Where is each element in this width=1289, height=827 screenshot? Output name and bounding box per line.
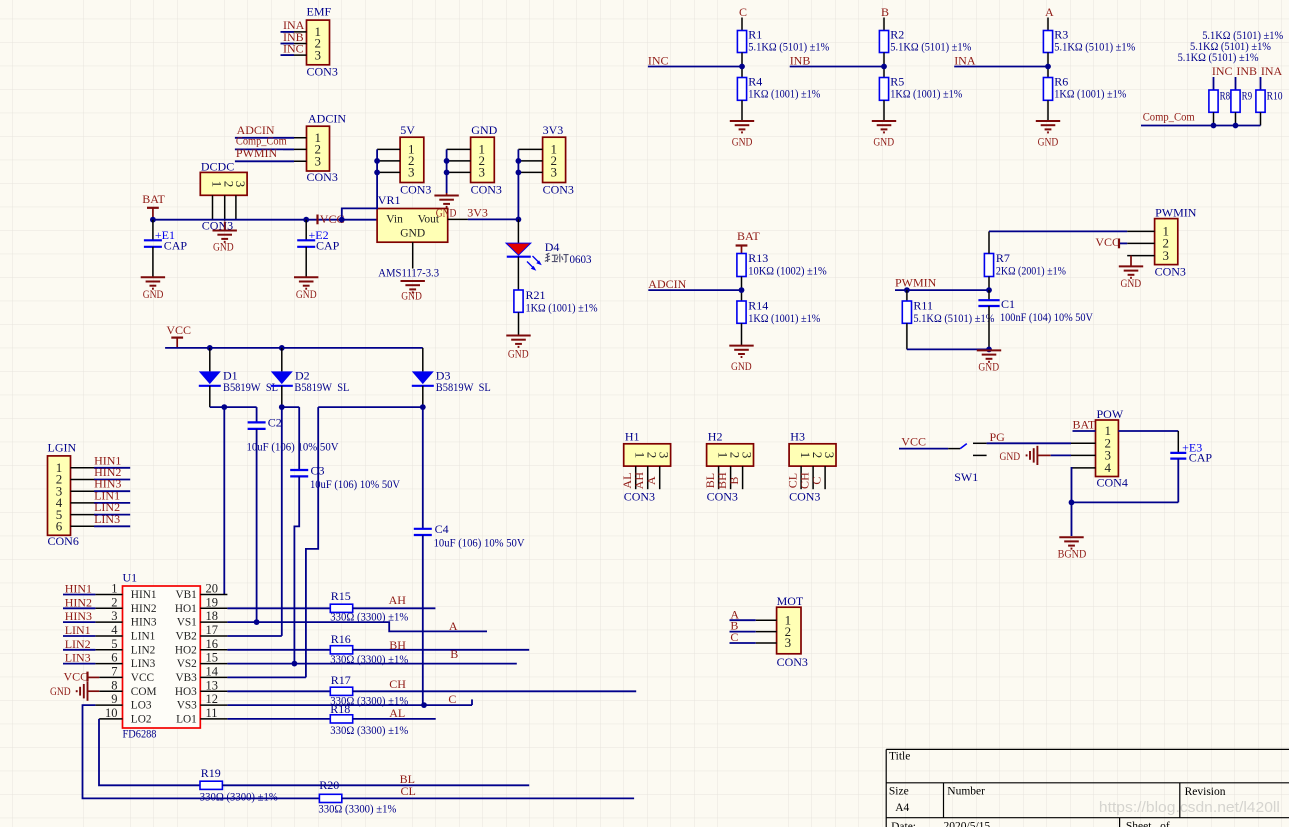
ground at R21 — [506, 336, 530, 361]
svg-text:CAP: CAP — [164, 239, 188, 253]
svg-text:CAP: CAP — [1189, 451, 1213, 465]
net label B — [881, 5, 889, 31]
svg-text:AL: AL — [389, 706, 405, 720]
power ground at U1 pin8 — [50, 682, 99, 701]
svg-text:GND: GND — [50, 684, 71, 698]
svg-text:11: 11 — [206, 706, 218, 720]
svg-text:10uF (106) 10% 50V: 10uF (106) 10% 50V — [310, 477, 400, 491]
svg-text:H3: H3 — [790, 430, 805, 444]
switch SW1 — [899, 434, 987, 484]
resistor R5 — [879, 75, 962, 121]
svg-text:GND: GND — [1038, 135, 1059, 149]
svg-text:5.1KΩ (5101) ±1%: 5.1KΩ (5101) ±1% — [1054, 40, 1135, 54]
net label INA wire — [954, 54, 1051, 70]
wire VB3 rail segment — [306, 404, 426, 677]
svg-text:15: 15 — [206, 651, 219, 665]
svg-text:0603: 0603 — [570, 252, 592, 266]
ground at C1 — [977, 350, 1001, 373]
svg-text:LO1: LO1 — [176, 714, 197, 726]
svg-text:R20: R20 — [319, 778, 339, 792]
svg-text:VCC: VCC — [131, 672, 154, 684]
svg-text:GND: GND — [1000, 449, 1021, 463]
ground at PWMIN pin3 — [1119, 256, 1143, 290]
svg-text:C: C — [730, 630, 738, 644]
svg-text:Vin: Vin — [386, 213, 403, 225]
svg-text:R17: R17 — [331, 673, 351, 687]
svg-text:3: 3 — [822, 452, 837, 459]
svg-text:HIN2: HIN2 — [131, 603, 157, 615]
svg-text:A: A — [644, 476, 658, 485]
svg-text:LIN2: LIN2 — [131, 644, 156, 656]
wire POW pin1 to E3 — [1118, 431, 1178, 453]
wire VB1 rail segment — [210, 404, 257, 594]
svg-text:3: 3 — [111, 609, 117, 623]
svg-text:LIN1: LIN1 — [131, 631, 155, 643]
net label C — [739, 5, 747, 31]
ground at R6 — [1036, 121, 1060, 149]
ground at R14 — [729, 346, 753, 373]
svg-text:CL: CL — [401, 784, 416, 798]
svg-text:CON3: CON3 — [400, 183, 431, 197]
svg-text:R9: R9 — [1242, 90, 1253, 102]
net label CL wire — [342, 784, 634, 798]
svg-text:18: 18 — [206, 609, 219, 623]
svg-text:GND: GND — [401, 289, 422, 303]
svg-text:GND: GND — [436, 205, 457, 219]
svg-text:LIN2: LIN2 — [65, 637, 91, 651]
svg-text:B: B — [881, 5, 889, 19]
svg-text:VB3: VB3 — [175, 672, 197, 684]
connector ADCIN (CON3) — [283, 112, 346, 184]
svg-text:17: 17 — [206, 623, 219, 637]
svg-text:B5819W SL: B5819W SL — [436, 380, 491, 394]
resistor R9 — [1231, 90, 1252, 126]
svg-text:https://blog.csdn.net/l420ll: https://blog.csdn.net/l420ll — [1099, 799, 1280, 816]
svg-text:GND: GND — [873, 135, 894, 149]
svg-text:MOT: MOT — [777, 594, 804, 608]
connector GND (CON3) — [447, 123, 502, 197]
svg-text:HIN3: HIN3 — [131, 617, 157, 629]
ground at DCDC pin2 — [213, 222, 237, 254]
ground at R4 — [730, 121, 754, 149]
svg-text:PWMIN: PWMIN — [236, 146, 278, 160]
svg-text:BAT: BAT — [142, 192, 165, 206]
svg-text:330Ω (3300) ±1%: 330Ω (3300) ±1% — [200, 790, 278, 804]
net label BL wire — [222, 772, 529, 786]
svg-text:BH: BH — [389, 638, 406, 652]
resistor R3 — [1043, 28, 1135, 78]
svg-text:CON3: CON3 — [307, 170, 338, 184]
svg-text:10uF (106) 10% 50V: 10uF (106) 10% 50V — [434, 535, 525, 549]
svg-text:CON6: CON6 — [48, 534, 79, 548]
wire 3V3 connector to 3V3 node — [516, 149, 522, 222]
svg-text:3: 3 — [551, 165, 558, 180]
power port BAT mid — [736, 229, 761, 254]
svg-text:EMF: EMF — [307, 5, 332, 19]
svg-text:B: B — [727, 477, 741, 485]
svg-text:10KΩ (1002) ±1%: 10KΩ (1002) ±1% — [748, 264, 826, 278]
connector 5V (CON3) — [377, 123, 431, 197]
svg-text:INB: INB — [790, 54, 811, 68]
svg-text:CON3: CON3 — [777, 655, 808, 669]
svg-text:VCC: VCC — [320, 212, 345, 226]
svg-text:3: 3 — [785, 635, 792, 650]
svg-text:GND: GND — [143, 287, 164, 301]
svg-text:1KΩ (1001) ±1%: 1KΩ (1001) ±1% — [890, 87, 962, 101]
svg-text:VCC: VCC — [166, 323, 191, 337]
svg-text:CON3: CON3 — [789, 490, 820, 504]
svg-text:PWMIN: PWMIN — [1155, 206, 1197, 220]
svg-text:B5819W SL: B5819W SL — [294, 380, 349, 394]
net label INC wire — [648, 54, 745, 70]
wire LO1 to R18 — [227, 718, 330, 720]
svg-text:16: 16 — [206, 637, 219, 651]
svg-text:VB2: VB2 — [175, 631, 197, 643]
connector 3V3 (CON3) — [518, 123, 574, 197]
net label PWMIN wire — [895, 276, 992, 293]
ground at GND connector — [434, 196, 458, 220]
power port VCC at PWMIN — [1095, 235, 1127, 249]
svg-text:GND: GND — [732, 135, 753, 149]
connector H2 (CON3) — [707, 430, 755, 504]
svg-text:AH: AH — [389, 593, 407, 607]
capacitor C3 — [290, 407, 400, 663]
svg-text:4: 4 — [111, 623, 118, 637]
resistor R20 — [318, 778, 396, 816]
svg-text:R8: R8 — [1220, 90, 1231, 102]
op-amp U1 FD6288 — [95, 571, 227, 741]
ground at R5 — [872, 121, 896, 149]
svg-text:DCDC: DCDC — [201, 160, 234, 174]
resistor R6 — [1043, 75, 1126, 121]
svg-text:VS3: VS3 — [177, 700, 197, 712]
svg-text:D4: D4 — [545, 240, 560, 254]
svg-text:1KΩ (1001) ±1%: 1KΩ (1001) ±1% — [748, 311, 820, 325]
svg-text:12: 12 — [206, 692, 219, 706]
svg-text:ADCIN: ADCIN — [648, 277, 686, 291]
svg-text:HO2: HO2 — [175, 644, 197, 656]
svg-text:LIN3: LIN3 — [65, 651, 91, 665]
svg-text:1KΩ (1001) ±1%: 1KΩ (1001) ±1% — [526, 301, 598, 315]
net label B wire VS2 — [227, 647, 516, 666]
resistor R17 — [330, 673, 408, 707]
svg-text:5.1KΩ (5101) ±1%: 5.1KΩ (5101) ±1% — [913, 311, 994, 325]
svg-text:8: 8 — [111, 678, 117, 692]
svg-text:2020/5/15: 2020/5/15 — [944, 821, 991, 827]
svg-text:B: B — [450, 647, 458, 661]
power port VCC top — [166, 323, 191, 348]
svg-text:PWMIN: PWMIN — [895, 276, 937, 290]
resistor R16 — [330, 632, 408, 666]
svg-text:10uF (106) 10% 50V: 10uF (106) 10% 50V — [247, 440, 339, 454]
svg-text:GND: GND — [213, 240, 234, 254]
svg-text:VR1: VR1 — [378, 193, 401, 207]
resistor R2 — [879, 28, 971, 78]
svg-text:3: 3 — [315, 47, 322, 62]
svg-text:LO2: LO2 — [131, 714, 152, 726]
resistor R1 — [737, 28, 829, 78]
svg-text:C2: C2 — [268, 416, 282, 430]
net labels BL BH B at H2 — [703, 472, 741, 489]
svg-text:A4: A4 — [895, 802, 909, 814]
wire VCC rail — [165, 345, 423, 351]
svg-text:5.1KΩ (5101) ±1%: 5.1KΩ (5101) ±1% — [1178, 50, 1259, 64]
resistor R15 — [330, 589, 408, 623]
svg-text:BAT: BAT — [737, 229, 760, 243]
svg-text:VCC: VCC — [1095, 235, 1120, 249]
net labels CL CH C at H3 — [785, 472, 823, 489]
svg-text:VS2: VS2 — [177, 658, 197, 670]
svg-text:GND: GND — [731, 359, 752, 373]
capacitor C2 — [247, 407, 339, 622]
svg-text:H1: H1 — [625, 430, 640, 444]
svg-text:10: 10 — [105, 706, 118, 720]
svg-text:3: 3 — [315, 154, 322, 169]
net label BAT wire at POW — [1073, 417, 1096, 431]
svg-text:ADCIN: ADCIN — [308, 112, 346, 126]
connector PWMIN (CON3) — [1127, 206, 1197, 279]
wire LO2 to R19 — [99, 719, 200, 785]
net label INB wire — [790, 54, 887, 70]
resistor R18 — [330, 702, 408, 737]
net labels INC INB INA wires at pullups — [1212, 64, 1283, 90]
svg-text:BGND: BGND — [1058, 547, 1087, 561]
diode D1 B5819W — [199, 348, 278, 407]
svg-text:VCC: VCC — [64, 669, 89, 683]
svg-text:INC: INC — [648, 54, 669, 68]
svg-text:20: 20 — [206, 582, 219, 596]
svg-text:R15: R15 — [331, 589, 351, 603]
svg-text:VCC: VCC — [901, 434, 926, 448]
wire POW pin4 to BGND — [1069, 468, 1179, 536]
svg-text:HIN1: HIN1 — [131, 589, 157, 601]
svg-text:AMS1117-3.3: AMS1117-3.3 — [378, 266, 439, 280]
svg-text:14: 14 — [206, 664, 219, 678]
LED D4 red 0603 — [506, 219, 592, 290]
resistor R8 — [1209, 90, 1230, 126]
watermark — [1099, 799, 1280, 816]
resistor R11 — [902, 290, 994, 349]
svg-text:6: 6 — [111, 651, 117, 665]
svg-text:C: C — [448, 692, 456, 706]
net labels HIN LIN at U1 — [63, 582, 95, 665]
svg-text:R19: R19 — [201, 766, 221, 780]
svg-text:3: 3 — [657, 452, 672, 459]
svg-text:COM: COM — [131, 686, 157, 698]
svg-text:GND: GND — [296, 287, 317, 301]
power port VCC at U1 pin7 — [64, 669, 100, 683]
svg-text:BAT: BAT — [1073, 417, 1096, 431]
svg-text:7: 7 — [111, 664, 117, 678]
svg-text:3: 3 — [479, 165, 486, 180]
svg-text:INB: INB — [1236, 64, 1257, 78]
connector EMF (CON3) — [283, 5, 338, 79]
svg-text:INA: INA — [954, 54, 976, 68]
svg-text:LIN3: LIN3 — [131, 658, 156, 670]
svg-text:LIN1: LIN1 — [65, 623, 91, 637]
svg-text:4: 4 — [1105, 460, 1112, 475]
svg-text:5V: 5V — [400, 123, 415, 137]
svg-text:U1: U1 — [123, 571, 138, 585]
svg-text:A: A — [1045, 5, 1054, 19]
svg-text:5.1KΩ (5101) ±1%: 5.1KΩ (5101) ±1% — [748, 40, 829, 54]
svg-text:R10: R10 — [1267, 90, 1283, 102]
wire R7 to PWMIN pin1 — [989, 230, 1127, 232]
svg-text:CAP: CAP — [316, 239, 340, 253]
resistor R10 — [1256, 90, 1283, 126]
svg-text:A: A — [449, 619, 458, 633]
connector DCDC (CON3) — [200, 160, 248, 233]
value labels for R8 R9 R10 — [1178, 28, 1284, 64]
svg-text:5.1KΩ (5101) ±1%: 5.1KΩ (5101) ±1% — [890, 40, 971, 54]
connector H1 (CON3) — [624, 430, 672, 504]
ground BGND — [1058, 537, 1087, 560]
connector H3 (CON3) — [789, 430, 837, 504]
wire R11 C1 to ground — [907, 347, 992, 353]
net label CH wire — [353, 677, 637, 692]
svg-text:CON3: CON3 — [624, 490, 655, 504]
svg-text:LGIN: LGIN — [48, 440, 77, 454]
svg-text:13: 13 — [206, 678, 219, 692]
svg-text:3V3: 3V3 — [467, 205, 488, 219]
svg-text:1KΩ (1001) ±1%: 1KΩ (1001) ±1% — [748, 87, 820, 101]
power port BAT — [142, 192, 165, 220]
svg-text:GND: GND — [1121, 276, 1142, 290]
svg-text:C: C — [739, 5, 747, 19]
svg-text:19: 19 — [206, 595, 219, 609]
net label AH wire — [353, 593, 436, 608]
svg-text:2KΩ (2001) ±1%: 2KΩ (2001) ±1% — [996, 264, 1066, 278]
svg-text:CON3: CON3 — [543, 183, 574, 197]
connector MOT (CON3) — [756, 594, 808, 669]
svg-text:3V3: 3V3 — [543, 123, 564, 137]
capacitor E3 (CAP) — [1170, 441, 1212, 503]
resistor R13 — [737, 251, 827, 301]
svg-text:HO3: HO3 — [175, 686, 197, 698]
wire HO1 to R15 — [227, 607, 330, 609]
resistor R19 — [200, 766, 278, 804]
svg-text:330Ω (3300) ±1%: 330Ω (3300) ±1% — [318, 801, 396, 815]
capacitor C4 — [414, 407, 525, 705]
svg-text:B5819W SL: B5819W SL — [223, 380, 278, 394]
net label PG wire — [987, 430, 1071, 444]
svg-text:Title: Title — [889, 750, 910, 762]
svg-text:3: 3 — [1163, 248, 1170, 263]
svg-text:HIN2: HIN2 — [65, 595, 92, 609]
net Comp_Com wire — [1141, 110, 1261, 129]
svg-text:3: 3 — [408, 165, 415, 180]
svg-text:5: 5 — [111, 637, 117, 651]
connector POW (CON4) — [1071, 407, 1128, 490]
svg-text:2: 2 — [111, 595, 117, 609]
svg-text:1: 1 — [111, 582, 117, 596]
resistor R21 — [514, 288, 598, 335]
svg-text:GND: GND — [400, 227, 425, 239]
wire VB3 — [227, 676, 306, 678]
svg-text:CON4: CON4 — [1097, 476, 1128, 490]
svg-text:INA: INA — [1261, 64, 1283, 78]
wire HO3 to R17 — [227, 690, 330, 692]
wire VB2 rail segment — [279, 404, 299, 636]
svg-text:C: C — [809, 477, 823, 485]
svg-text:FD6288: FD6288 — [123, 726, 157, 740]
net labels INA INB INC at EMF — [281, 18, 305, 56]
wire VB2 — [227, 635, 281, 637]
power port VCC mid — [318, 212, 345, 226]
net labels AL AH A at H1 — [620, 472, 658, 490]
svg-text:C4: C4 — [435, 522, 449, 536]
svg-text:100nF (104) 10% 50V: 100nF (104) 10% 50V — [1000, 310, 1093, 324]
ground at E2 — [294, 277, 318, 301]
svg-text:VB1: VB1 — [175, 589, 196, 601]
svg-text:Number: Number — [947, 785, 985, 797]
connector LGIN (CON6) — [48, 440, 96, 548]
capacitor E1 (CAP) — [144, 220, 187, 277]
svg-text:R16: R16 — [331, 632, 351, 646]
capacitor C1 — [978, 290, 1093, 349]
regulator VR1 AMS1117-3.3 — [377, 193, 448, 280]
svg-text:9: 9 — [111, 692, 117, 706]
net label C wire VS3 — [227, 692, 472, 708]
svg-text:Size: Size — [889, 785, 909, 797]
wire HO2 to R16 — [227, 649, 330, 651]
svg-text:CON3: CON3 — [471, 183, 502, 197]
net label A wire VS1 — [227, 619, 487, 633]
net label 3V3 wire Vout — [448, 205, 519, 219]
svg-text:Comp_Com: Comp_Com — [1143, 110, 1196, 124]
title block — [886, 749, 1289, 827]
diode D3 B5819W — [412, 348, 491, 407]
svg-text:Sheet of: Sheet of — [1126, 821, 1170, 827]
svg-text:R18: R18 — [330, 702, 350, 716]
net labels HIN LIN at LGIN — [94, 453, 130, 526]
svg-text:GND: GND — [508, 347, 529, 361]
power ground at POW pin3 — [1000, 446, 1072, 465]
svg-text:CH: CH — [389, 677, 406, 691]
resistor R7 — [984, 231, 1066, 290]
net labels A B C at MOT — [730, 607, 756, 644]
svg-text:INC: INC — [283, 42, 304, 56]
svg-text:HO1: HO1 — [175, 603, 197, 615]
svg-text:CON3: CON3 — [707, 490, 738, 504]
svg-text:VS1: VS1 — [177, 617, 197, 629]
net label AL wire — [353, 706, 436, 720]
svg-text:LIN3: LIN3 — [94, 512, 120, 526]
svg-text:Date:: Date: — [891, 821, 916, 827]
svg-text:CON3: CON3 — [307, 64, 338, 78]
wire LO3 to R20 — [83, 705, 320, 798]
svg-text:3: 3 — [740, 452, 755, 459]
svg-text:POW: POW — [1097, 407, 1124, 421]
svg-text:6: 6 — [56, 519, 63, 534]
svg-text:GND: GND — [978, 360, 999, 374]
svg-text:Revision: Revision — [1185, 786, 1226, 798]
svg-text:INC: INC — [1212, 64, 1233, 78]
net labels ADCIN Comp_Com PWMIN wires — [235, 123, 294, 161]
svg-text:H2: H2 — [708, 430, 723, 444]
wire GND connector down — [444, 149, 450, 195]
svg-text:GND: GND — [471, 123, 497, 137]
net label ADCIN wire — [648, 277, 744, 293]
svg-text:HIN1: HIN1 — [65, 582, 92, 596]
svg-text:LO3: LO3 — [131, 700, 152, 712]
svg-text:3: 3 — [233, 181, 248, 188]
wire BAT to VR1 Vin — [150, 217, 377, 223]
svg-text:SW1: SW1 — [954, 470, 978, 484]
svg-text:HIN3: HIN3 — [65, 609, 92, 623]
resistor R14 — [737, 299, 820, 346]
svg-text:C1: C1 — [1001, 297, 1015, 311]
